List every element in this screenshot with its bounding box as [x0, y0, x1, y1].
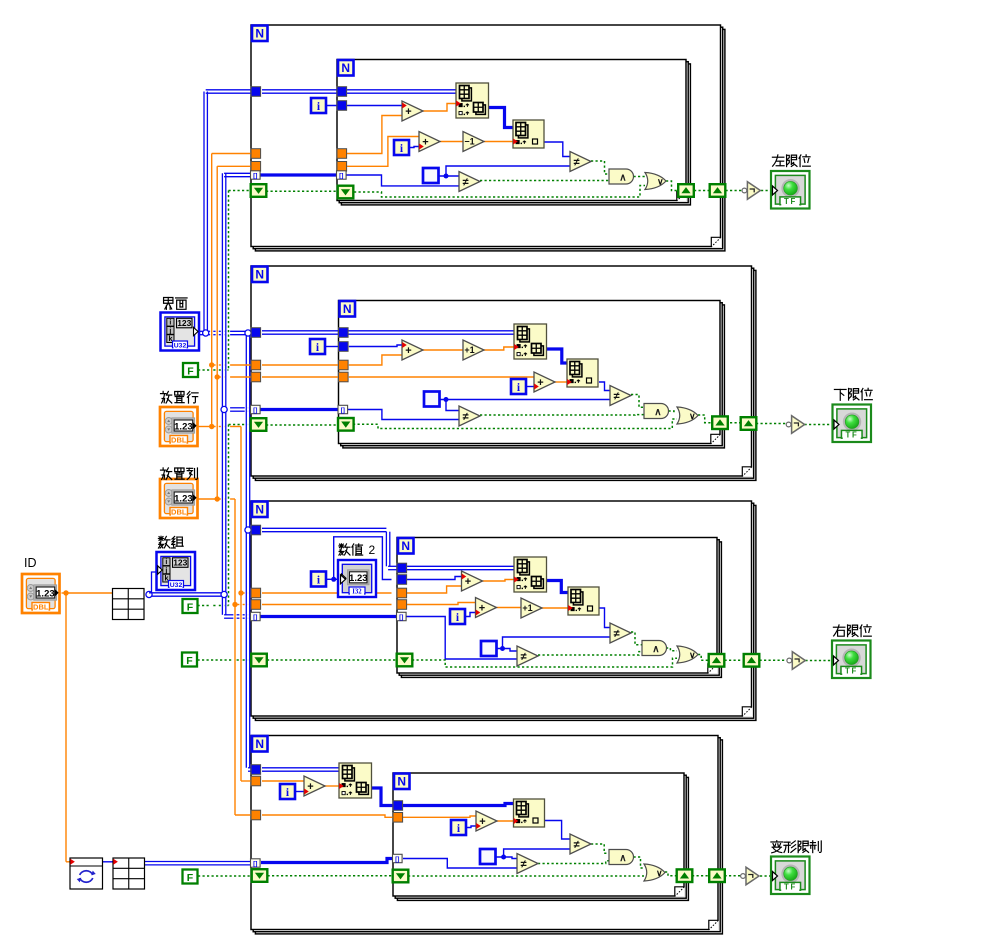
coercion dot loop1 ia2: [513, 139, 518, 145]
wire: row-value (orange): [197, 154, 252, 782]
false constant 2: [183, 599, 198, 613]
svg-text:≠: ≠: [462, 176, 468, 188]
junction: array bus at grid node: [146, 591, 152, 597]
loop1 iteration terminal i: [311, 98, 326, 113]
svg-text:k: k: [168, 336, 172, 343]
wire: loop1 zero const branches: [439, 166, 570, 176]
wire: loop2 1D row wire: [546, 349, 567, 363]
right-limit input arrow: [834, 656, 839, 665]
tunnel: loop3 inner array idx: [397, 612, 407, 621]
shift register: loop3 outer left: [251, 654, 267, 667]
wire: reshaped array to loop4 (blue pair): [103, 862, 253, 865]
loop4 not-equal 2: [517, 854, 538, 874]
loop3 iteration terminal i2: [450, 609, 465, 624]
junction: interface bus left: [203, 330, 209, 336]
coercion dot loop3 ia1: [514, 577, 519, 583]
wire: loop4 1D row wire outer: [372, 788, 393, 806]
shift register: loop1 outer left: [251, 184, 267, 197]
svg-text:I32: I32: [352, 589, 362, 596]
loop2 iteration terminal i2: [511, 379, 526, 394]
coercion dot loop4 add2: [476, 823, 481, 829]
coercion dot loop3 add: [462, 574, 467, 580]
wire: array-control 2D bus (blue pair): [149, 173, 252, 618]
svg-text:j: j: [164, 567, 167, 574]
LED indicator: deform-limit: [771, 857, 810, 895]
junction: interface bus loop3 tap: [245, 527, 251, 533]
tunnel: loop1 outer col in: [251, 162, 261, 172]
svg-text:N: N: [255, 503, 264, 517]
for-loop 1 inner frame: [337, 60, 690, 205]
wire: loop1 i2 to add2: [409, 147, 419, 148]
numeric 2 indicator: [338, 560, 376, 597]
loop2 not function: [786, 416, 804, 434]
label: right limit: [833, 625, 871, 637]
svg-text:∨: ∨: [656, 868, 663, 878]
coercion dot loop3 add2: [476, 610, 481, 616]
loop3 and gate: [642, 641, 667, 656]
tunnel: loop1 inner i in: [337, 101, 347, 111]
deform-limit input arrow: [773, 872, 778, 881]
wire: loop3 i2 to add2: [465, 613, 476, 617]
svg-text:TF: TF: [784, 882, 797, 891]
wire: loop3 element to neq1: [599, 608, 610, 628]
svg-text:F: F: [187, 601, 194, 613]
svg-text:≠: ≠: [462, 411, 468, 423]
loop3 iteration terminal i: [311, 572, 326, 587]
wire: loop1 2D array inner: [262, 90, 456, 93]
loop3 not function: [787, 652, 805, 670]
wire: loop4 i2 to add2: [466, 826, 476, 828]
loop3 add function: [462, 571, 483, 591]
wire: loop2 i to tunnel to add: [325, 345, 402, 347]
lower-limit input arrow: [834, 420, 839, 429]
loop1 not-equal 2: [459, 172, 480, 192]
svg-text:i: i: [165, 559, 167, 566]
tunnel: loop1 outer array idx: [251, 171, 261, 180]
tunnel: loop3 outer col in: [251, 600, 261, 610]
coercion dot loop2 ia1: [514, 344, 519, 350]
svg-text:∨: ∨: [689, 411, 696, 421]
loop4 add function 2: [476, 811, 497, 831]
loop2 increment function: [463, 340, 484, 360]
svg-text:[]: []: [253, 407, 257, 414]
svg-text:N: N: [255, 27, 264, 41]
label: ID: [24, 556, 37, 570]
svg-text:+1: +1: [522, 603, 532, 613]
label: numeric 2: [339, 543, 376, 557]
tunnel: loop2 inner row in: [339, 360, 349, 370]
junction: loop4 const: [501, 855, 506, 860]
loop3 or gate: [677, 646, 698, 663]
wire: loop3 col into add2: [262, 603, 476, 605]
svg-text:[]: []: [253, 861, 257, 868]
svg-text:[]: []: [339, 173, 343, 180]
tunnel: loop3 inner row in: [397, 588, 407, 598]
wire: loop2 and to or: [669, 410, 678, 413]
tunnel: loop4 outer row in: [251, 776, 261, 786]
wire: loop4 add2 to index2: [497, 820, 514, 822]
svg-text:k: k: [164, 576, 168, 583]
for-loop 2 outer frame: [251, 266, 756, 480]
loop3 add function 2: [476, 598, 497, 618]
wire: loop4 1D row wire inner: [403, 804, 514, 806]
svg-text:∨: ∨: [657, 176, 664, 186]
junction: col wire at loop2 tap: [215, 374, 220, 379]
loop2 outer count terminal N: [252, 267, 268, 283]
coercion dot loop1 add: [402, 103, 407, 109]
wire: loop2 zero const branches: [440, 400, 610, 411]
svg-text:−1: −1: [464, 137, 474, 147]
junction: array bus loop2 tap: [221, 406, 227, 412]
wire: loop3 i to numeric2 and tunnel: [326, 537, 462, 580]
wire: loop3 zero const branches: [496, 637, 610, 651]
loop4 iteration terminal i: [280, 784, 295, 799]
wire: loop3 row into add: [262, 586, 462, 593]
wire: false constant to loop1 shift register: [198, 191, 252, 371]
shift register: loop4 outer right: [709, 869, 725, 882]
tunnel: loop3 inner 2D in: [397, 563, 407, 573]
svg-text:U32: U32: [174, 343, 187, 350]
shift register: loop2 inner right: [712, 416, 728, 429]
shift register: loop3 outer right: [744, 654, 760, 667]
loop2 or gate: [677, 407, 698, 424]
svg-text:∨: ∨: [689, 650, 696, 660]
wire: false constant to loop2 shift register: [198, 425, 253, 606]
loop4 not function: [741, 867, 759, 885]
tunnel: loop4 outer 2D in: [251, 765, 261, 775]
svg-text:2: 2: [369, 543, 376, 557]
wire: loop2 neq1 to and: [631, 395, 644, 408]
coercion dot reshape2: [113, 859, 118, 865]
svg-text:N: N: [255, 737, 264, 751]
wire: loop3 element2 to neq2: [261, 617, 518, 660]
for-loop 3 outer frame: [251, 501, 756, 720]
tunnel: loop4 outer col in: [251, 810, 261, 820]
shift register: loop3 inner right: [709, 654, 725, 667]
placement-col numeric control: [160, 479, 198, 518]
svg-text:≠: ≠: [520, 651, 526, 663]
tunnel: loop4 inner 1D in: [393, 801, 403, 811]
tunnel: loop4 outer array idx: [251, 859, 261, 868]
junction: loop3 const: [500, 646, 505, 651]
shift register: loop1 inner right: [678, 184, 694, 197]
coercion dot loop1 ia1: [456, 101, 461, 107]
junction: ID wire: [63, 590, 68, 595]
shift register: loop2 outer right: [741, 417, 757, 430]
tunnel: loop3 inner i in: [397, 575, 407, 585]
loop4 or gate: [644, 864, 665, 881]
coercion dot loop4 ia1: [339, 783, 344, 789]
wire: ID value (orange): [62, 593, 113, 862]
coercion dot loop2 add: [402, 342, 407, 348]
junction: array bus main: [221, 591, 227, 597]
tunnel: loop3 inner col in: [397, 600, 407, 610]
wire: loop2 2D array inner: [262, 331, 514, 334]
for-loop 2 inner frame: [339, 301, 725, 448]
junction: interface bus right: [245, 330, 251, 336]
loop4 iteration terminal i2: [451, 820, 466, 835]
loop1 outer count terminal N: [252, 26, 268, 42]
svg-text:≠: ≠: [613, 390, 619, 402]
wire: loop1 i to add: [326, 105, 402, 107]
svg-text:DBL: DBL: [171, 507, 187, 516]
coercion dot loop4 add: [304, 789, 309, 795]
shift register: loop2 inner left: [338, 418, 354, 431]
wire: loop3 and to or: [666, 648, 677, 651]
svg-text:[]: []: [341, 407, 345, 414]
convert node: [70, 858, 103, 889]
wire: loop1 add2 to decrement: [440, 141, 463, 143]
svg-text:+1: +1: [464, 345, 474, 355]
wire: loop4 row into add: [262, 780, 304, 782]
wire: loop2 inc to index array: [484, 347, 514, 350]
svg-text:N: N: [343, 302, 352, 316]
svg-text:i: i: [169, 320, 171, 327]
svg-text:≠: ≠: [573, 156, 579, 168]
wire: loop3 add out to index array: [483, 580, 515, 582]
label: array (shuzu): [158, 536, 183, 548]
loop1 index array 2: [513, 120, 544, 148]
svg-text:+: +: [405, 106, 411, 118]
loop4 inner count terminal N: [394, 774, 410, 790]
loop4 add function: [304, 776, 325, 796]
svg-text:1.23: 1.23: [174, 493, 193, 504]
wire: loop1 neq2 to and: [480, 180, 609, 182]
loop3 inner count terminal N: [398, 538, 414, 554]
svg-text:+: +: [465, 576, 471, 588]
array control: [157, 552, 196, 590]
junction: loop2 const: [444, 397, 449, 402]
tunnel: loop1 inner 2D in: [337, 87, 347, 97]
loop1 inner count terminal N: [338, 60, 354, 76]
svg-text:N: N: [341, 61, 350, 75]
shift register: loop1 outer right: [710, 184, 726, 197]
wire: loop3 neq1 to and: [631, 632, 642, 645]
tunnel: loop1 inner array idx: [337, 171, 347, 180]
svg-text:+: +: [537, 377, 543, 389]
wire: loop4 and to or: [634, 857, 645, 868]
wire: loop4 neq2 to and: [538, 861, 609, 864]
loop2 not-equal 1: [610, 386, 631, 406]
left-limit input arrow: [773, 186, 778, 195]
tunnel: loop2 outer row in: [251, 360, 261, 370]
loop1 or gate: [645, 173, 666, 190]
LED indicator: right-limit: [832, 641, 871, 679]
loop3 index array 2: [568, 587, 599, 615]
loop4 and gate: [609, 850, 634, 865]
loop1 zero constant: [423, 168, 439, 183]
svg-text:U32: U32: [170, 582, 183, 589]
svg-text:1.23: 1.23: [174, 421, 193, 432]
junction: loop3 i wire: [331, 577, 336, 582]
loop4 index array 1: [339, 763, 372, 798]
tunnel: loop2 inner i in: [339, 342, 349, 352]
wire: loop3 inc to index2: [542, 607, 568, 609]
reshape array node 2: [113, 858, 145, 889]
coercion dot convert node: [70, 859, 75, 865]
svg-text:+: +: [405, 345, 411, 357]
loop3 index array 1: [514, 557, 547, 592]
wire: loop4 element2 to neq2: [261, 859, 517, 869]
wire: array control loop-around: [149, 572, 158, 593]
wire: loop2 or to tunnels: [698, 415, 833, 425]
svg-text:F: F: [186, 655, 193, 667]
svg-text:≠: ≠: [520, 858, 526, 870]
wire: loop2 i2 to add2: [526, 386, 534, 388]
junction: row wire loop3 tap: [238, 590, 243, 595]
wire: loop4 col to inner: [262, 815, 476, 817]
loop1 and gate: [609, 169, 634, 184]
tunnel: loop2 outer array idx: [251, 405, 261, 414]
wire: loop4 element to neq1: [545, 821, 571, 840]
svg-text:[]: []: [253, 173, 257, 180]
for-loop 4 outer frame: [251, 736, 722, 934]
svg-text:≠: ≠: [613, 628, 619, 640]
coercion dot loop2 ia2: [567, 379, 572, 385]
wire: loop3 neq2 to and: [538, 652, 642, 655]
tunnel: loop1 inner row in: [337, 149, 347, 159]
tunnel: loop3 outer 2D in: [251, 525, 261, 535]
svg-text:TF: TF: [845, 666, 858, 675]
wire: loop1 element to neq1: [544, 142, 570, 157]
wire: loop1 col into add2: [347, 137, 419, 167]
wire: loop1 row into add: [347, 116, 402, 154]
wire: loop1 shift register chain: [266, 186, 645, 198]
placement-row numeric control: [160, 407, 198, 446]
wire: loop1 decrement to index2: [484, 141, 513, 143]
loop4 index array 2: [514, 799, 545, 827]
numeric2 terminal arrow: [341, 575, 346, 584]
tunnel: loop2 inner 2D in: [339, 328, 349, 338]
tunnel: loop1 outer row in: [251, 149, 261, 159]
label: placement col: [161, 468, 198, 480]
false constant 3: [182, 653, 197, 667]
svg-text:∧: ∧: [619, 853, 626, 864]
coercion dot loop4 ia2: [514, 818, 519, 824]
coercion dot loop3 ia2: [568, 605, 573, 611]
wire: loop2 element2 to neq2: [261, 410, 460, 420]
svg-text:1.23: 1.23: [36, 588, 55, 599]
wire: false constant to loop4 shift register: [198, 875, 252, 877]
loop4 zero constant: [480, 849, 496, 864]
tunnel: loop3 outer row in: [251, 588, 261, 598]
wire: loop4 shift register chain: [268, 875, 645, 877]
wire: false constant to loop3 shift register: [198, 659, 253, 661]
shift register: loop2 outer left: [251, 418, 267, 431]
loop1 not function: [742, 182, 760, 200]
loop1 iteration terminal i2: [394, 140, 409, 155]
wire: loop3 add2 to inc: [497, 607, 522, 609]
svg-text:[]: []: [395, 856, 399, 863]
loop3 zero constant: [481, 641, 497, 656]
svg-text:TF: TF: [845, 430, 858, 439]
wire: loop4 neq1 to and: [591, 844, 609, 853]
svg-text:j: j: [168, 328, 171, 335]
junction: row wire main: [209, 424, 214, 429]
loop2 inner count terminal N: [340, 301, 356, 317]
loop1 add function 2: [419, 132, 440, 152]
wire: loop1 neq1 to and: [591, 161, 609, 174]
label: lower limit: [834, 388, 872, 400]
reshape array node 1: [113, 589, 145, 620]
false constant 1: [183, 363, 198, 377]
wire: loop3 or to tunnels: [698, 655, 832, 661]
loop3 outer count terminal N: [252, 502, 268, 518]
loop1 index array 1: [456, 83, 489, 118]
wire: loop1 1D row wire: [488, 108, 513, 128]
wire: loop2 neq2 to and: [480, 414, 644, 416]
svg-text:∧: ∧: [652, 644, 659, 655]
coercion dot loop1 add2: [419, 144, 424, 150]
loop2 index array 2: [567, 359, 598, 387]
svg-text:TF: TF: [784, 197, 797, 206]
svg-text:DBL: DBL: [33, 602, 49, 611]
loop2 index array 1: [514, 324, 547, 359]
wire: loop3 2D array inner: [262, 528, 514, 569]
for-loop 4 inner frame: [393, 773, 688, 900]
tunnel: loop2 inner col in: [339, 372, 349, 382]
loop3 increment function: [521, 598, 542, 618]
label: left limit: [772, 155, 810, 167]
wire: loop1 or to tunnels: [666, 181, 772, 191]
svg-text:DBL: DBL: [171, 435, 187, 444]
LED indicator: lower-limit: [833, 405, 872, 443]
wire: loop4 add to index array: [324, 785, 339, 787]
junction: loop1 const: [444, 174, 449, 179]
wire: loop4 zero const branches: [496, 849, 570, 859]
loop2 zero constant: [424, 392, 440, 407]
loop4 outer count terminal N: [252, 736, 268, 752]
LED indicator: left-limit: [771, 171, 810, 209]
wire: loop1 and to or: [634, 176, 646, 178]
label: interface (jiemian): [164, 298, 188, 310]
svg-text:≠: ≠: [573, 839, 579, 851]
tunnel: loop2 inner array idx: [338, 405, 348, 414]
loop1 add function: [402, 101, 423, 121]
wire: loop2 shift register chain: [266, 419, 677, 429]
svg-text:N: N: [255, 268, 264, 282]
shift register: loop4 outer left: [252, 869, 268, 882]
svg-text:∧: ∧: [619, 172, 626, 183]
tunnel: loop3 outer array idx: [251, 612, 261, 621]
for-loop 1 outer frame: [251, 25, 725, 251]
tunnel: loop4 inner col in: [393, 813, 403, 823]
loop2 not-equal 2: [459, 406, 480, 426]
tunnel: loop2 outer 2D in: [251, 328, 261, 338]
loop2 add function: [402, 340, 423, 360]
shift register: loop3 inner left: [397, 654, 413, 667]
svg-text:[]: []: [399, 614, 403, 621]
loop1 decrement function: [463, 132, 484, 152]
tunnel: loop2 outer col in: [251, 372, 261, 382]
for-loop 3 inner frame: [397, 538, 721, 678]
svg-text:[]: []: [253, 614, 257, 621]
wire: loop4 2D array inner: [262, 768, 339, 771]
loop4 not-equal 1: [570, 834, 591, 854]
svg-text:∧: ∧: [654, 407, 661, 418]
ID numeric control: [22, 574, 60, 613]
coercion dot loop2 add2: [534, 384, 539, 390]
svg-text:1.23: 1.23: [349, 573, 368, 584]
svg-text:ID: ID: [24, 556, 37, 570]
wire: loop4 or to tunnels: [665, 872, 772, 876]
false constant 4: [183, 870, 198, 884]
loop2 add function 2: [534, 372, 555, 392]
wire: loop2 row into add: [262, 355, 402, 365]
tunnel: loop4 inner array idx: [393, 854, 403, 863]
label: deformation limit: [771, 841, 821, 853]
shift register: loop1 inner left: [338, 186, 354, 199]
